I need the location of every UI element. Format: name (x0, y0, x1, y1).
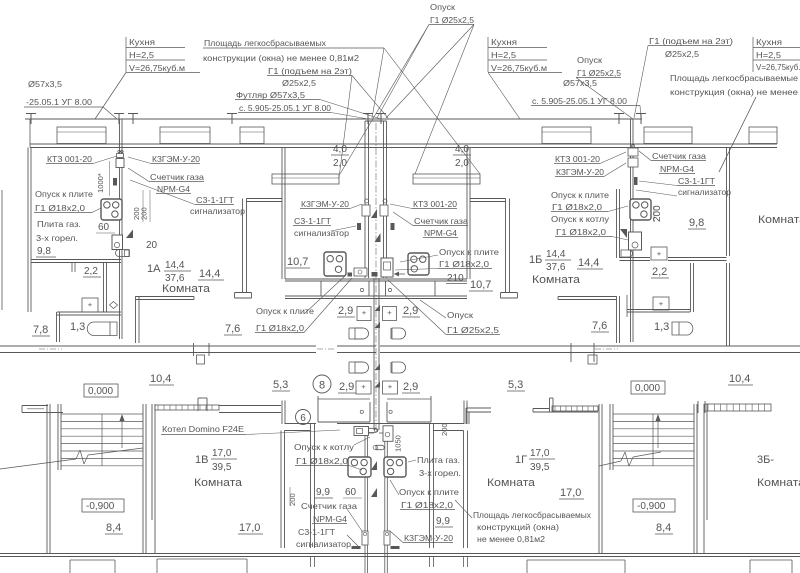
toilet 1A (82, 298, 98, 312)
svg-text:Г1 Ø18x2,0: Г1 Ø18x2,0 (256, 323, 304, 333)
otm 0.000 right (631, 381, 665, 394)
stairs left arrow (121, 418, 123, 448)
svg-text:Счетчик газа: Счетчик газа (150, 172, 204, 182)
svg-text:Ø25x2,5: Ø25x2,5 (665, 49, 699, 59)
svg-text:20: 20 (146, 240, 158, 251)
flag c6 (375, 382, 381, 388)
stove lowR (384, 457, 406, 477)
boiler low vertical (383, 426, 393, 442)
svg-text:с. 5.905-25.05.1 УГ 8.00: с. 5.905-25.05.1 УГ 8.00 (532, 96, 627, 106)
svg-text:1050: 1050 (394, 435, 403, 452)
flag low2 (371, 488, 377, 497)
svg-text:V=26,75куб.м: V=26,75куб.м (756, 62, 800, 72)
riser 1B (630, 119, 632, 342)
svg-text:Комната: Комната (194, 477, 243, 489)
bath capsule c4 (392, 362, 406, 373)
pipe support tick (618, 114, 620, 125)
arrow left small (394, 273, 405, 275)
svg-text:Площадь легкосбрасываемые: Площадь легкосбрасываемые (670, 73, 798, 83)
toilet2 1B (653, 297, 669, 310)
svg-text:0,000: 0,000 (88, 386, 113, 397)
svg-text:Г1 Ø25x2,5: Г1 Ø25x2,5 (447, 325, 499, 335)
svg-text:Г1 Ø18x2,0: Г1 Ø18x2,0 (439, 259, 489, 269)
flag center1 (371, 209, 377, 218)
svg-text:Опуск к котлу: Опуск к котлу (551, 214, 610, 224)
svg-text:7,6: 7,6 (225, 323, 240, 335)
wall bath low h (57, 311, 121, 313)
wc box right (383, 307, 397, 321)
pipe support tick (30, 114, 32, 125)
svg-text:NPM-G4: NPM-G4 (424, 228, 457, 238)
svg-text:17,0: 17,0 (560, 487, 581, 499)
pipe support tick (231, 114, 233, 125)
svg-text:3-х горел.: 3-х горел. (36, 233, 78, 243)
wc box row2 right (383, 381, 398, 394)
svg-text:Опуск: Опуск (447, 310, 473, 320)
wall top 1B room (470, 198, 506, 200)
svg-text:H=2,5: H=2,5 (129, 50, 154, 60)
svg-text:9,9: 9,9 (436, 516, 450, 527)
riser pipes low (364, 433, 366, 573)
svg-text:-0,900: -0,900 (637, 501, 666, 512)
svg-text:1Б: 1Б (529, 254, 542, 266)
stove 1B (630, 199, 651, 220)
svg-text:NPM-G4: NPM-G4 (313, 514, 347, 524)
sensor left (357, 223, 361, 230)
otm -0,900 right (633, 499, 675, 512)
KZGEM device 1B (628, 158, 638, 167)
svg-text:Г1 Ø25x2,5: Г1 Ø25x2,5 (577, 68, 621, 78)
window sill 1V (155, 405, 219, 410)
boiler 1B (629, 232, 642, 250)
svg-text:9,9: 9,9 (316, 487, 330, 498)
svg-text:H=2,5: H=2,5 (491, 50, 516, 60)
svg-text:17,0: 17,0 (212, 448, 232, 459)
outer wall left (27, 148, 29, 313)
niche left (272, 174, 339, 184)
svg-text:6: 6 (300, 413, 306, 424)
pipe support tick (640, 114, 642, 125)
flag c4 (375, 322, 381, 328)
svg-text:Г1 Ø18x2,0: Г1 Ø18x2,0 (35, 203, 85, 213)
wc box left (357, 307, 371, 321)
balcony boxes bottom (69, 560, 71, 573)
svg-text:7,6: 7,6 (592, 320, 607, 332)
boiler low horizontal (354, 427, 369, 436)
black mark a (348, 273, 353, 277)
svg-text:1В: 1В (195, 454, 208, 466)
svg-text:КТЗ 001-20: КТЗ 001-20 (555, 154, 600, 164)
black eq left (352, 546, 361, 549)
wall center-left (281, 148, 283, 280)
wall top 1V room (219, 405, 281, 407)
KTZ valve 1B (628, 148, 638, 156)
axis circle 6 (296, 410, 311, 425)
valve box left (362, 205, 370, 216)
svg-text:9,8: 9,8 (689, 217, 704, 229)
closet box right (386, 281, 436, 296)
svg-text:Опуск: Опуск (577, 55, 602, 65)
svg-text:2,0: 2,0 (455, 158, 469, 169)
axis circle 8 (313, 375, 331, 393)
bath capsule 1B (672, 322, 693, 335)
wall bottom 1A room (136, 296, 194, 298)
bath capsule c2 (392, 328, 406, 339)
svg-text:10,4: 10,4 (729, 373, 750, 385)
wall over stairs left (22, 405, 48, 407)
kitchen data table 1 (125, 37, 127, 72)
svg-text:3-х горел.: 3-х горел. (419, 468, 461, 478)
flag center2 (375, 233, 381, 242)
svg-text:Счетчик газа: Счетчик газа (652, 151, 706, 161)
svg-text:2,9: 2,9 (403, 305, 418, 317)
svg-text:200: 200 (288, 493, 297, 506)
svg-text:H=2,5: H=2,5 (756, 50, 781, 60)
corridor center walls (285, 278, 467, 280)
svg-text:конструкция (окна) не менее: конструкция (окна) не менее (670, 87, 798, 97)
riser pipes mid (373, 298, 375, 430)
wall 1B bath low (627, 309, 690, 311)
wall bath left low v (56, 312, 58, 342)
svg-text:39,5: 39,5 (530, 462, 550, 473)
stairs right treads (613, 413, 694, 415)
closet low right (387, 396, 431, 422)
svg-text:14,4: 14,4 (199, 268, 220, 280)
wall 1G top right (533, 411, 598, 413)
wall corner 1G (466, 407, 491, 409)
window sill 3B (705, 404, 771, 411)
black mark b (372, 272, 378, 277)
svg-text:КТЗ 001-20: КТЗ 001-20 (47, 154, 92, 164)
sink diamond (110, 302, 118, 309)
pipe support tick (132, 114, 134, 125)
svg-text:2,9: 2,9 (338, 305, 353, 317)
wall 1B bath v (626, 295, 628, 317)
wall center-right (466, 148, 468, 280)
bath capsule 1A (87, 322, 117, 336)
wall top 1A room (247, 198, 283, 200)
toilet 1B (651, 247, 667, 260)
svg-text:Ø25x2,5: Ø25x2,5 (282, 78, 316, 88)
svg-text:4,0: 4,0 (333, 144, 347, 155)
svg-text:Опуск к плите: Опуск к плите (35, 189, 93, 199)
wall bottom 1B room (558, 296, 617, 298)
window sill 1G pier (549, 398, 551, 412)
signal sensor 1B (634, 177, 638, 185)
svg-text:1,3: 1,3 (70, 321, 85, 333)
shaft top cap (365, 120, 387, 122)
otm 0.000 left (84, 384, 118, 397)
svg-text:2,0: 2,0 (333, 158, 347, 169)
svg-text:200: 200 (440, 423, 449, 436)
device lowR (384, 531, 390, 545)
svg-text:+: + (388, 382, 393, 391)
window (57, 127, 106, 144)
svg-text:Г1 (подъем на 2эт): Г1 (подъем на 2эт) (268, 66, 352, 76)
svg-text:Ø57x3,5: Ø57x3,5 (563, 78, 597, 88)
svg-text:8,4: 8,4 (106, 522, 121, 534)
svg-text:Комната: Комната (532, 274, 581, 286)
svg-text:39,5: 39,5 (212, 462, 232, 473)
svg-text:1000*: 1000* (96, 173, 105, 193)
svg-text:Футляр Ø57x3,5: Футляр Ø57x3,5 (236, 90, 305, 100)
svg-text:200: 200 (652, 205, 663, 222)
svg-text:1,3: 1,3 (654, 321, 669, 333)
svg-text:NPM-G4: NPM-G4 (157, 184, 190, 194)
wall 1B room left (505, 199, 507, 293)
svg-text:+: + (362, 308, 367, 317)
wall room1A right (242, 199, 244, 293)
pier with box (193, 343, 195, 356)
gas main pipe (top horizontal) (25, 118, 642, 120)
wall 1B kitchen right (726, 148, 728, 257)
pipe support tick (380, 114, 382, 125)
svg-text:КЗГЭМ-У-20: КЗГЭМ-У-20 (404, 533, 453, 543)
device lowL (362, 531, 368, 545)
svg-text:Счетчик газа: Счетчик газа (414, 216, 468, 226)
closet band top lines (318, 398, 370, 400)
svg-text:Плита газ.: Плита газ. (37, 219, 81, 229)
svg-text:Комната: Комната (758, 214, 800, 226)
gas meter center (381, 258, 393, 277)
leader lines low center (349, 466, 362, 471)
svg-text:Г1 Ø25x2,5: Г1 Ø25x2,5 (430, 15, 474, 25)
bath capsule c3 (355, 362, 369, 373)
wall foot 1B (501, 292, 518, 294)
KZGEM device 1A (116, 159, 124, 168)
stairs break line right (599, 461, 621, 466)
svg-text:Комната: Комната (757, 477, 800, 489)
svg-text:37,6: 37,6 (546, 262, 566, 273)
capsule low (376, 445, 384, 449)
svg-text:60: 60 (98, 222, 110, 233)
pipe support tick (367, 114, 369, 125)
wall kitchen low left (280, 431, 282, 549)
wall bath low left (310, 424, 312, 548)
window (160, 127, 210, 144)
svg-text:С3-1-1ГТ: С3-1-1ГТ (294, 216, 331, 226)
svg-text:-0,900: -0,900 (86, 501, 115, 512)
stairs right arrow (657, 418, 659, 448)
boiler 1A (112, 235, 123, 250)
wall stubs below (310, 557, 312, 568)
kitchen data table 3 (752, 37, 754, 72)
svg-text:Кухня: Кухня (129, 37, 155, 47)
svg-text:8: 8 (319, 380, 325, 392)
leader to 1B window (719, 97, 756, 172)
kitchen data table 2 (487, 37, 489, 72)
svg-text:конструкции (окна) не менее 0,: конструкции (окна) не менее 0,81м2 (203, 53, 359, 63)
svg-text:2,2: 2,2 (84, 266, 98, 277)
svg-text:10,7: 10,7 (470, 279, 491, 291)
svg-text:+: + (361, 382, 366, 391)
svg-text:Счетчик газа: Счетчик газа (301, 501, 357, 511)
svg-text:7,8: 7,8 (33, 324, 48, 336)
wall kitchen1A/bath (31, 259, 121, 261)
svg-text:КЗГЭМ-У-20: КЗГЭМ-У-20 (556, 167, 604, 177)
stove c-left (324, 252, 346, 276)
stove c-right (408, 253, 429, 275)
svg-text:14,4: 14,4 (546, 249, 566, 260)
wall bath low right (463, 431, 465, 549)
svg-text:+: + (88, 300, 93, 309)
svg-text:сигнализатор: сигнализатор (190, 206, 245, 216)
svg-text:КЗГЭМ-У-20: КЗГЭМ-У-20 (301, 199, 349, 209)
svg-text:200: 200 (140, 207, 149, 220)
svg-text:9,8: 9,8 (37, 246, 51, 257)
otm -0,900 left (82, 499, 124, 512)
wall 1B kitchen left (616, 189, 618, 258)
stove 1A (101, 199, 122, 220)
svg-text:17,0: 17,0 (239, 522, 260, 534)
svg-text:60: 60 (345, 487, 357, 498)
svg-text:С3-1-1ГТ: С3-1-1ГТ (678, 176, 715, 186)
lower corridor closet walls (281, 401, 283, 425)
svg-text:-25.05.1 УГ 8.00: -25.05.1 УГ 8.00 (26, 97, 92, 107)
window (240, 127, 264, 144)
svg-text:+: + (387, 308, 392, 317)
svg-text:конструкций (окна): конструкций (окна) (477, 522, 559, 532)
stairwell right walls (598, 404, 600, 553)
stove lowL (348, 457, 371, 477)
wall bath right (135, 296, 137, 343)
black eq right (391, 546, 400, 549)
signal sensor 1A (113, 178, 117, 186)
small box left (354, 268, 367, 276)
svg-text:2,9: 2,9 (403, 381, 418, 393)
svg-text:Г1 Ø18x2,0: Г1 Ø18x2,0 (401, 500, 453, 510)
window (644, 127, 692, 144)
svg-text:Г1 Ø18x2,0: Г1 Ø18x2,0 (552, 202, 602, 212)
svg-text:С3-1-1ГТ: С3-1-1ГТ (196, 195, 234, 205)
KTZ valve 1A (118, 150, 120, 152)
gas riser 1A (119, 119, 121, 339)
svg-text:Площадь легкосбрасываемых: Площадь легкосбрасываемых (473, 510, 592, 520)
svg-text:Комната: Комната (487, 477, 536, 489)
svg-text:+: + (657, 249, 662, 258)
svg-text:V=26,75куб.м: V=26,75куб.м (491, 63, 547, 73)
svg-text:Площадь легкосбрасываемых: Площадь легкосбрасываемых (204, 38, 327, 48)
stairs left treads (61, 413, 143, 415)
svg-text:сигнализатор: сигнализатор (296, 539, 351, 549)
svg-text:Опуск к плите: Опуск к плите (439, 247, 499, 257)
svg-text:4,0: 4,0 (455, 144, 469, 155)
svg-text:1А: 1А (147, 263, 161, 275)
svg-text:1Г: 1Г (515, 454, 527, 466)
wall foot 1A (235, 292, 252, 294)
svg-text:5,3: 5,3 (508, 379, 523, 391)
svg-text:сигнализатор: сигнализатор (678, 187, 731, 197)
shaft centerline (375, 123, 377, 430)
svg-text:Опуск к плите: Опуск к плите (399, 487, 459, 497)
leader lines top center (372, 48, 384, 118)
svg-text:8,4: 8,4 (656, 522, 671, 534)
bath capsule c1 (355, 328, 369, 339)
wall 1B bath right v (690, 263, 692, 312)
svg-text:С3-1-1ГТ: С3-1-1ГТ (298, 527, 335, 537)
svg-text:Плита газ.: Плита газ. (417, 455, 460, 465)
svg-text:Г1 (подъем на 2эт): Г1 (подъем на 2эт) (649, 36, 733, 46)
svg-text:2,2: 2,2 (652, 266, 667, 278)
svg-text:NPM-G4: NPM-G4 (660, 164, 694, 174)
flag 1B (620, 229, 627, 238)
wall bath inner v (103, 263, 105, 312)
sensor right (391, 223, 395, 230)
svg-text:+: + (659, 299, 664, 308)
svg-text:Ø57x3,5: Ø57x3,5 (28, 79, 62, 89)
flag 1A (126, 230, 133, 239)
svg-text:Г1 Ø18x2,0: Г1 Ø18x2,0 (296, 456, 348, 466)
svg-text:V=26,75куб.м: V=26,75куб.м (129, 63, 185, 73)
svg-text:17,0: 17,0 (530, 448, 550, 459)
svg-text:КТЗ 001-20: КТЗ 001-20 (413, 199, 457, 209)
wall kitchen low h (285, 430, 311, 432)
stairwell left walls (46, 404, 48, 553)
stairs break line left (0, 459, 76, 469)
svg-text:Опуск: Опуск (430, 2, 455, 12)
window sill 1G (552, 406, 598, 411)
svg-text:3Б-: 3Б- (757, 454, 774, 466)
svg-text:2,9: 2,9 (339, 381, 354, 393)
wall kitchen low right (429, 424, 431, 548)
pier 1V (197, 398, 199, 411)
svg-text:5,3: 5,3 (273, 379, 288, 391)
pipe support tick (118, 114, 120, 125)
wall stub (71, 263, 73, 273)
svg-text:14,4: 14,4 (578, 257, 599, 269)
svg-text:Комната: Комната (162, 283, 211, 295)
svg-text:10,4: 10,4 (150, 373, 171, 385)
exterior wall top (30, 143, 777, 145)
bottom outer wall (0, 553, 800, 555)
window (542, 127, 591, 144)
closet box left (321, 281, 369, 296)
wall 1B bath bottom (620, 257, 651, 259)
svg-text:с. 5.905-25.05.1 УГ 8.00: с. 5.905-25.05.1 УГ 8.00 (239, 103, 331, 113)
valve box right (380, 205, 388, 216)
left balcony edge (1, 190, 3, 310)
svg-text:14,4: 14,4 (165, 260, 185, 271)
svg-text:Котел Domino F24E: Котел Domino F24E (162, 424, 245, 434)
window (749, 127, 777, 144)
pier right (570, 343, 572, 362)
wc box row2 left (356, 381, 371, 394)
svg-text:КЗГЭМ-У-20: КЗГЭМ-У-20 (152, 154, 200, 164)
union right (383, 199, 387, 203)
svg-text:не менее 0,81м2: не менее 0,81м2 (477, 534, 545, 544)
svg-text:сигнализатор: сигнализатор (294, 228, 349, 238)
gas riser shaft left pipes (364, 121, 366, 278)
corridor wall upper (0, 345, 316, 347)
union left (365, 199, 369, 203)
svg-text:Кухня: Кухня (491, 37, 517, 47)
pier 3B (697, 401, 699, 413)
dashdot centerline corridor (39, 348, 62, 350)
svg-text:0,000: 0,000 (635, 383, 660, 394)
svg-text:Опуск к котлу: Опуск к котлу (294, 442, 355, 452)
flag low1 (371, 461, 377, 470)
wall stub left (29, 119, 31, 148)
flag c3 (375, 305, 381, 311)
svg-text:Опуск к плите: Опуск к плите (256, 306, 314, 316)
closet low left (318, 396, 370, 422)
svg-text:Г1 Ø18x2,0: Г1 Ø18x2,0 (556, 227, 606, 237)
svg-text:210: 210 (447, 273, 464, 284)
niche right (413, 174, 480, 184)
svg-text:Кухня: Кухня (756, 37, 782, 47)
flag c5 (375, 364, 381, 370)
svg-text:Опуск к плите: Опуск к плите (551, 190, 609, 200)
